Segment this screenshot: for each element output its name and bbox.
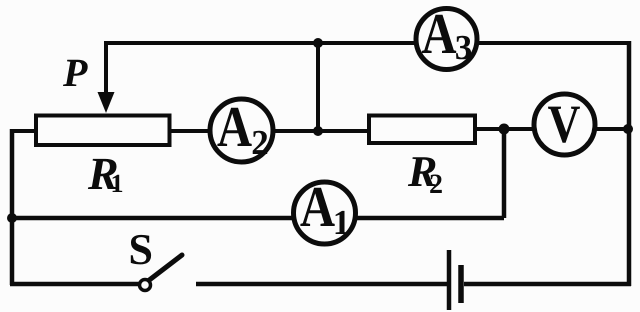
switch lever xyxy=(148,255,182,281)
resistor R1 (rheostat body) xyxy=(36,116,170,146)
wire left vertical xyxy=(10,129,15,285)
ammeter A1 xyxy=(294,182,356,244)
wire battery to right vertical xyxy=(464,282,631,287)
node dot right vertical at V xyxy=(623,124,633,134)
wire R2 to right vertical through V xyxy=(475,127,629,131)
arrowhead of slider P xyxy=(98,92,115,113)
voltmeter V xyxy=(534,94,595,155)
wire bottom left to switch xyxy=(10,282,140,287)
ammeter A3 xyxy=(416,9,477,70)
wire switch to battery xyxy=(196,282,447,287)
battery cell xyxy=(449,250,461,310)
switch S xyxy=(140,255,183,291)
node dot A2-R2 rail junction xyxy=(313,126,323,136)
switch pivot circle xyxy=(140,280,151,291)
wire left stub to R1 xyxy=(10,129,36,133)
battery long plate (+) xyxy=(447,250,452,310)
node dot left vertical at A1 rail xyxy=(7,213,17,223)
node dot right of R2 xyxy=(499,124,510,135)
label R1 xyxy=(88,159,122,192)
wire vertical from R2 node down to A1 rail xyxy=(502,129,507,218)
label S xyxy=(131,235,151,265)
label P xyxy=(63,60,88,86)
wire mid vertical (node to A2-R2 rail) xyxy=(316,43,320,131)
wire A1 rail xyxy=(12,216,504,221)
wire top rail xyxy=(104,41,631,45)
node dot top junction xyxy=(313,38,323,48)
wire right vertical xyxy=(627,41,632,286)
battery short plate (-) xyxy=(458,265,464,303)
resistor R2 body xyxy=(369,116,475,144)
ammeter A2 xyxy=(210,99,273,162)
label R2 xyxy=(408,157,442,193)
wire R1 to R2 through A2 xyxy=(169,129,369,133)
wire slider shaft of P xyxy=(104,43,108,98)
